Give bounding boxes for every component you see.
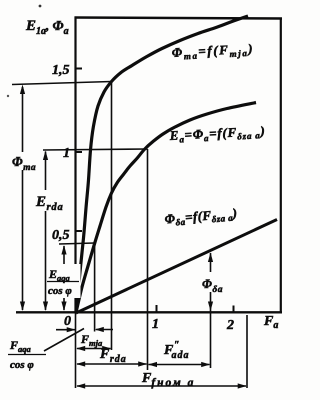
scan speck [39, 5, 42, 8]
frame top edge [75, 18, 283, 19]
x tick 2 [233, 306, 235, 313]
arrowheads phi_da [208, 253, 213, 263]
arrowheads A2 E_rda [43, 151, 48, 161]
svg-text:0: 0 [64, 314, 71, 329]
arrowheads row E F_fnom [76, 383, 85, 388]
vertical construction line V2 at F_mja [111, 82, 113, 351]
arrowheads A3 E_aqa [61, 245, 66, 255]
y-axis [74, 17, 76, 314]
arrowheads A1 phi_ma [20, 85, 25, 95]
x-axis [16, 311, 282, 313]
svg-text:cos φ: cos φ [48, 285, 72, 297]
arrowheads row A (outside pair) [67, 327, 76, 332]
y tick 1 [76, 151, 83, 153]
level line L3 (E_aqa/cos phi level) [59, 243, 95, 244]
svg-text:1: 1 [152, 317, 159, 332]
arrow A2 E_rda bracket line [45, 152, 47, 191]
level line L1 (phi_ma level) [12, 82, 112, 85]
curve label E_a = phi_a = f(F_dza) [168, 123, 266, 145]
vertical construction line V5 at F_fnom end [246, 315, 248, 388]
x tick 1 [156, 305, 158, 312]
arrowheads row D F_ada [148, 362, 157, 367]
curve label phi_ma = f(F_mja) [171, 41, 254, 62]
white label backgrounds [34, 190, 228, 298]
arrowheads row C F_rda [76, 361, 85, 366]
y tick 0,5 [76, 230, 83, 232]
curve E_a = phi_a = f(F_dza) [76, 103, 256, 313]
arrowheads row B F_mja [76, 346, 85, 351]
leader line from F_aqa/cos label [44, 329, 84, 352]
y tick 1,5 [76, 68, 83, 70]
vertical construction line V1 at F_aqa [94, 243, 96, 332]
svg-text:0,5: 0,5 [52, 228, 70, 243]
vertical construction line V4 at F_ada end [210, 253, 212, 273]
bottom row B: F_mja dimension line [77, 348, 111, 350]
curve label phi_da = f(F_dza) [164, 205, 238, 228]
bottom row D: F_ada dimension line [149, 364, 210, 366]
y-axis extension below x-axis [75, 313, 77, 388]
frame right edge [280, 18, 282, 314]
arrow A1 phi_ma bracket line [22, 87, 24, 152]
vertical construction line V3 at F_rda [147, 149, 149, 370]
bottom row E: F_fnom dimension line [77, 385, 246, 387]
straight line phi_da = f(F_dza) [76, 220, 277, 314]
bottom row C: F_rda dimension line [77, 363, 147, 365]
svg-text:2: 2 [226, 318, 234, 333]
svg-text:1,5: 1,5 [52, 63, 70, 78]
svg-text:cos φ: cos φ [10, 359, 34, 371]
svg-text:1: 1 [63, 146, 70, 161]
level line L2 (value 1 level) [43, 149, 148, 150]
bottom row A: F_aqa dimension tails [56, 329, 75, 331]
arrow A3 E_aqa stubs [63, 246, 65, 265]
curve phi_ma = f(F_mja) [76, 16, 248, 313]
